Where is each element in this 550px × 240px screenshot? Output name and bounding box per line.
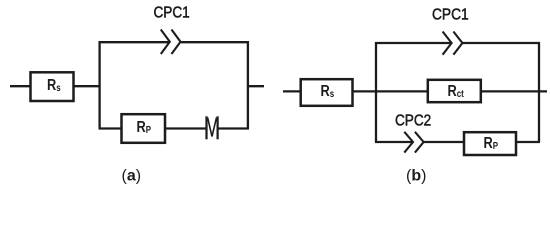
wire Rct to output (b): [481, 90, 548, 92]
svg-text:CPC2: CPC2: [395, 113, 431, 130]
wire Rs to Rct through left vertical (b): [352, 90, 428, 92]
wire Rp to right vertical (b): [516, 141, 541, 143]
Warburg element left bar (a): [205, 116, 207, 139]
wire top branch right segment (a): [181, 41, 249, 43]
resistor R_s (a): [31, 72, 74, 101]
wire bottom branch left segment (b): [375, 141, 413, 143]
wire input left terminal (b): [283, 90, 301, 92]
wire right vertical of parallel loop (a): [247, 41, 249, 128]
CPC1 chevron 1 (b): [443, 32, 452, 55]
resistor R_P (a): [122, 114, 166, 143]
CPC1 chevron 2 (a): [172, 30, 181, 55]
svg-text:CPC1: CPC1: [432, 6, 469, 24]
wire Warburg to right vertical (a): [219, 127, 250, 129]
svg-text:(a): (a): [122, 168, 142, 185]
wire Rp to Warburg (a): [165, 127, 207, 129]
CPC2 chevron 1 (b): [404, 132, 413, 153]
wire top branch right segment (b): [463, 42, 540, 44]
wire output stub right (a): [247, 85, 264, 87]
resistor R_ct (b): [428, 80, 481, 102]
svg-text:CPC1: CPC1: [154, 5, 190, 22]
CPC2 chevron 2 (b): [415, 132, 424, 153]
CPC1 chevron 1 (a): [161, 30, 170, 55]
wire top branch left segment (a): [99, 41, 170, 43]
wire Rs to node (a): [73, 85, 101, 87]
wire input left terminal (a): [10, 85, 31, 87]
resistor R_s (b): [301, 79, 353, 106]
wire left vertical of parallel network (b): [375, 42, 377, 142]
CPC1 chevron 2 (b): [453, 32, 462, 55]
Warburg element right bar (a): [217, 116, 219, 139]
wire bottom branch left segment (a): [99, 127, 123, 129]
wire left vertical of parallel loop (a): [98, 41, 100, 128]
resistor R_P (b): [464, 132, 516, 155]
wire CPC2 to Rp (b): [424, 141, 465, 143]
wire top branch left segment (b): [375, 42, 451, 44]
Warburg element V stroke (a): [208, 118, 217, 137]
wire right vertical of parallel network (b): [538, 42, 540, 142]
svg-text:(b): (b): [406, 168, 426, 185]
